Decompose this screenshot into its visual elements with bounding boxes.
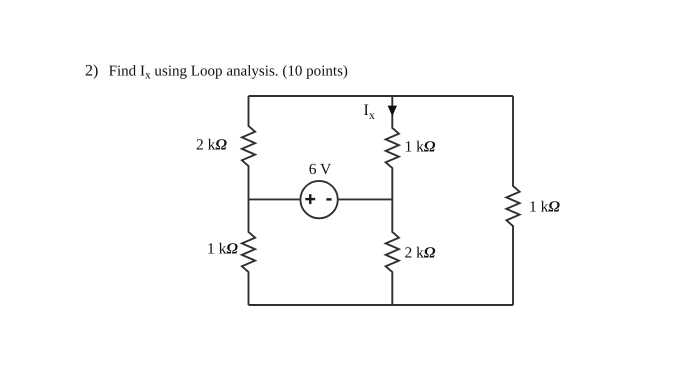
svg-text:Find Ix using Loop analysis. (: Find Ix using Loop analysis. (10 points) (109, 64, 348, 82)
svg-text:2): 2) (85, 63, 98, 80)
svg-text:6 V: 6 V (309, 161, 332, 178)
svg-text:2 kΩ: 2 kΩ (405, 244, 436, 261)
svg-text:2 kΩ: 2 kΩ (196, 137, 227, 154)
svg-text:1 kΩ: 1 kΩ (207, 241, 238, 258)
svg-text:1 kΩ: 1 kΩ (405, 139, 436, 156)
svg-text:Ix: Ix (364, 102, 375, 122)
svg-text:1 kΩ: 1 kΩ (529, 198, 560, 215)
